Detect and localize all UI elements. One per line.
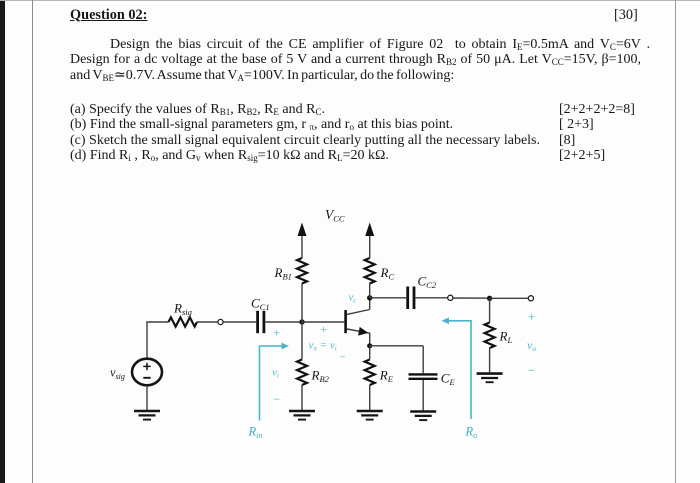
resistor RB2 [297, 360, 307, 386]
wire: CC1 to base node [265, 321, 302, 323]
svg-text:RC: RC [380, 265, 395, 282]
label R_C [380, 265, 395, 282]
label + (v_o) [527, 309, 536, 324]
label v_i [272, 367, 279, 380]
ground (RE) [357, 411, 383, 420]
page top grey line [0, 0, 700, 1]
label v_pi = v_i [309, 340, 337, 353]
ground (RB2) [289, 411, 315, 420]
label v_sig [110, 366, 125, 382]
page left black edge [0, 0, 5, 483]
transistor Q1 [344, 298, 369, 346]
svg-text:RB1: RB1 [274, 265, 292, 282]
label R_sig [173, 301, 192, 318]
resistor Rsig [169, 317, 198, 326]
wire: RE to ground [369, 385, 371, 411]
label C_C2 [418, 274, 437, 291]
label V_CC [325, 207, 345, 224]
svg-text:RE: RE [379, 368, 394, 385]
label v_o [527, 338, 536, 353]
wire: RL to ground [489, 348, 491, 373]
node: input open terminal [218, 319, 223, 324]
capacitor CC1 [258, 311, 264, 333]
svg-text:−: − [339, 352, 346, 364]
svg-text:Rsig: Rsig [173, 301, 192, 318]
wire: emitter node to CE branch [370, 345, 424, 347]
page inner left rule [32, 0, 33, 483]
wire: CE top lead [422, 346, 424, 373]
wire: base node to RB2 [301, 322, 303, 360]
wire: RB1 to VCC arrow [301, 235, 303, 258]
wire: open node to RL node [453, 297, 490, 299]
svg-text:vc: vc [349, 293, 358, 305]
svg-text:Ro: Ro [465, 425, 478, 441]
label C_E [441, 371, 456, 388]
node: emitter junction [367, 343, 372, 348]
wire: Rsig to input node [197, 321, 218, 323]
ground (RL) [477, 374, 503, 383]
svg-text:vi: vi [272, 367, 279, 380]
node: collector junction [367, 295, 372, 300]
svg-text:−: − [273, 392, 281, 406]
resistor RE [365, 360, 375, 386]
svg-text:CE: CE [441, 371, 456, 388]
svg-text:+: + [273, 326, 281, 340]
wire: base node to RB1 [301, 284, 303, 323]
svg-text:CC2: CC2 [418, 274, 437, 291]
Ro measurement arrow [442, 317, 472, 419]
node: base junction [299, 319, 304, 324]
label R_in [248, 425, 263, 441]
svg-text:+: + [527, 309, 536, 324]
paragraph [110, 37, 650, 52]
title [70, 8, 147, 23]
label + (v_i) [273, 326, 281, 340]
label R_o [465, 425, 478, 441]
page inner right rule [675, 0, 676, 483]
capacitor CE [409, 374, 438, 378]
wire: RL node to output terminal [490, 297, 529, 299]
svg-text:+: + [320, 322, 328, 336]
wire: RC to VCC arrow [369, 235, 371, 258]
wire: source bottom to ground [146, 385, 148, 411]
voltage source vsig [132, 359, 162, 386]
wire: CC2 to output open node [415, 297, 447, 299]
wire: RB2 to ground [301, 385, 303, 411]
ground (CE) [410, 412, 436, 421]
svg-text:vsig: vsig [110, 366, 125, 382]
node: open circle after CC2 [448, 295, 453, 300]
resistor RC [365, 258, 375, 284]
wire: CE bottom lead [422, 380, 424, 411]
svg-text:−: − [527, 363, 536, 378]
node: RL junction [487, 296, 492, 301]
label minus (v_i) [273, 392, 281, 406]
resistor RB1 [297, 258, 307, 284]
Rin measurement arrow [260, 343, 290, 421]
svg-text:vπ = vi: vπ = vi [309, 340, 337, 353]
wire: RL node down to RL [489, 298, 491, 322]
list [70, 102, 325, 117]
wire: emitter node to RE [369, 346, 371, 360]
label + (v_pi) [320, 322, 328, 336]
wire: input node to CC1 [223, 321, 256, 323]
VCC arrow (RB1 branch) [298, 223, 307, 237]
label R_L [499, 329, 513, 346]
svg-text:VCC: VCC [325, 207, 345, 224]
label R_B1 [274, 265, 292, 282]
svg-text:RB2: RB2 [311, 368, 330, 385]
svg-text:RL: RL [499, 329, 513, 346]
label v_c (collector voltage) [349, 293, 358, 305]
wire: RC to collector node [369, 284, 371, 298]
capacitor CC2 [408, 287, 414, 310]
label R_E [379, 368, 394, 385]
wire: base node to transistor base [302, 321, 344, 323]
VCC arrow (RC branch) [365, 223, 374, 237]
svg-text:CC1: CC1 [251, 296, 270, 313]
label minus (v_o) [527, 363, 536, 378]
ground (source) [134, 411, 160, 420]
label minus (v_pi) [339, 352, 346, 364]
wire: collector node to CC2 [370, 297, 407, 299]
label R_B2 [311, 368, 330, 385]
resistor RL [485, 323, 495, 349]
svg-text:vo: vo [527, 338, 536, 353]
svg-text:Rin: Rin [248, 425, 263, 441]
label C_C1 [251, 296, 270, 313]
wire: source top to Rsig [147, 322, 169, 359]
node: output open terminal [528, 296, 533, 301]
